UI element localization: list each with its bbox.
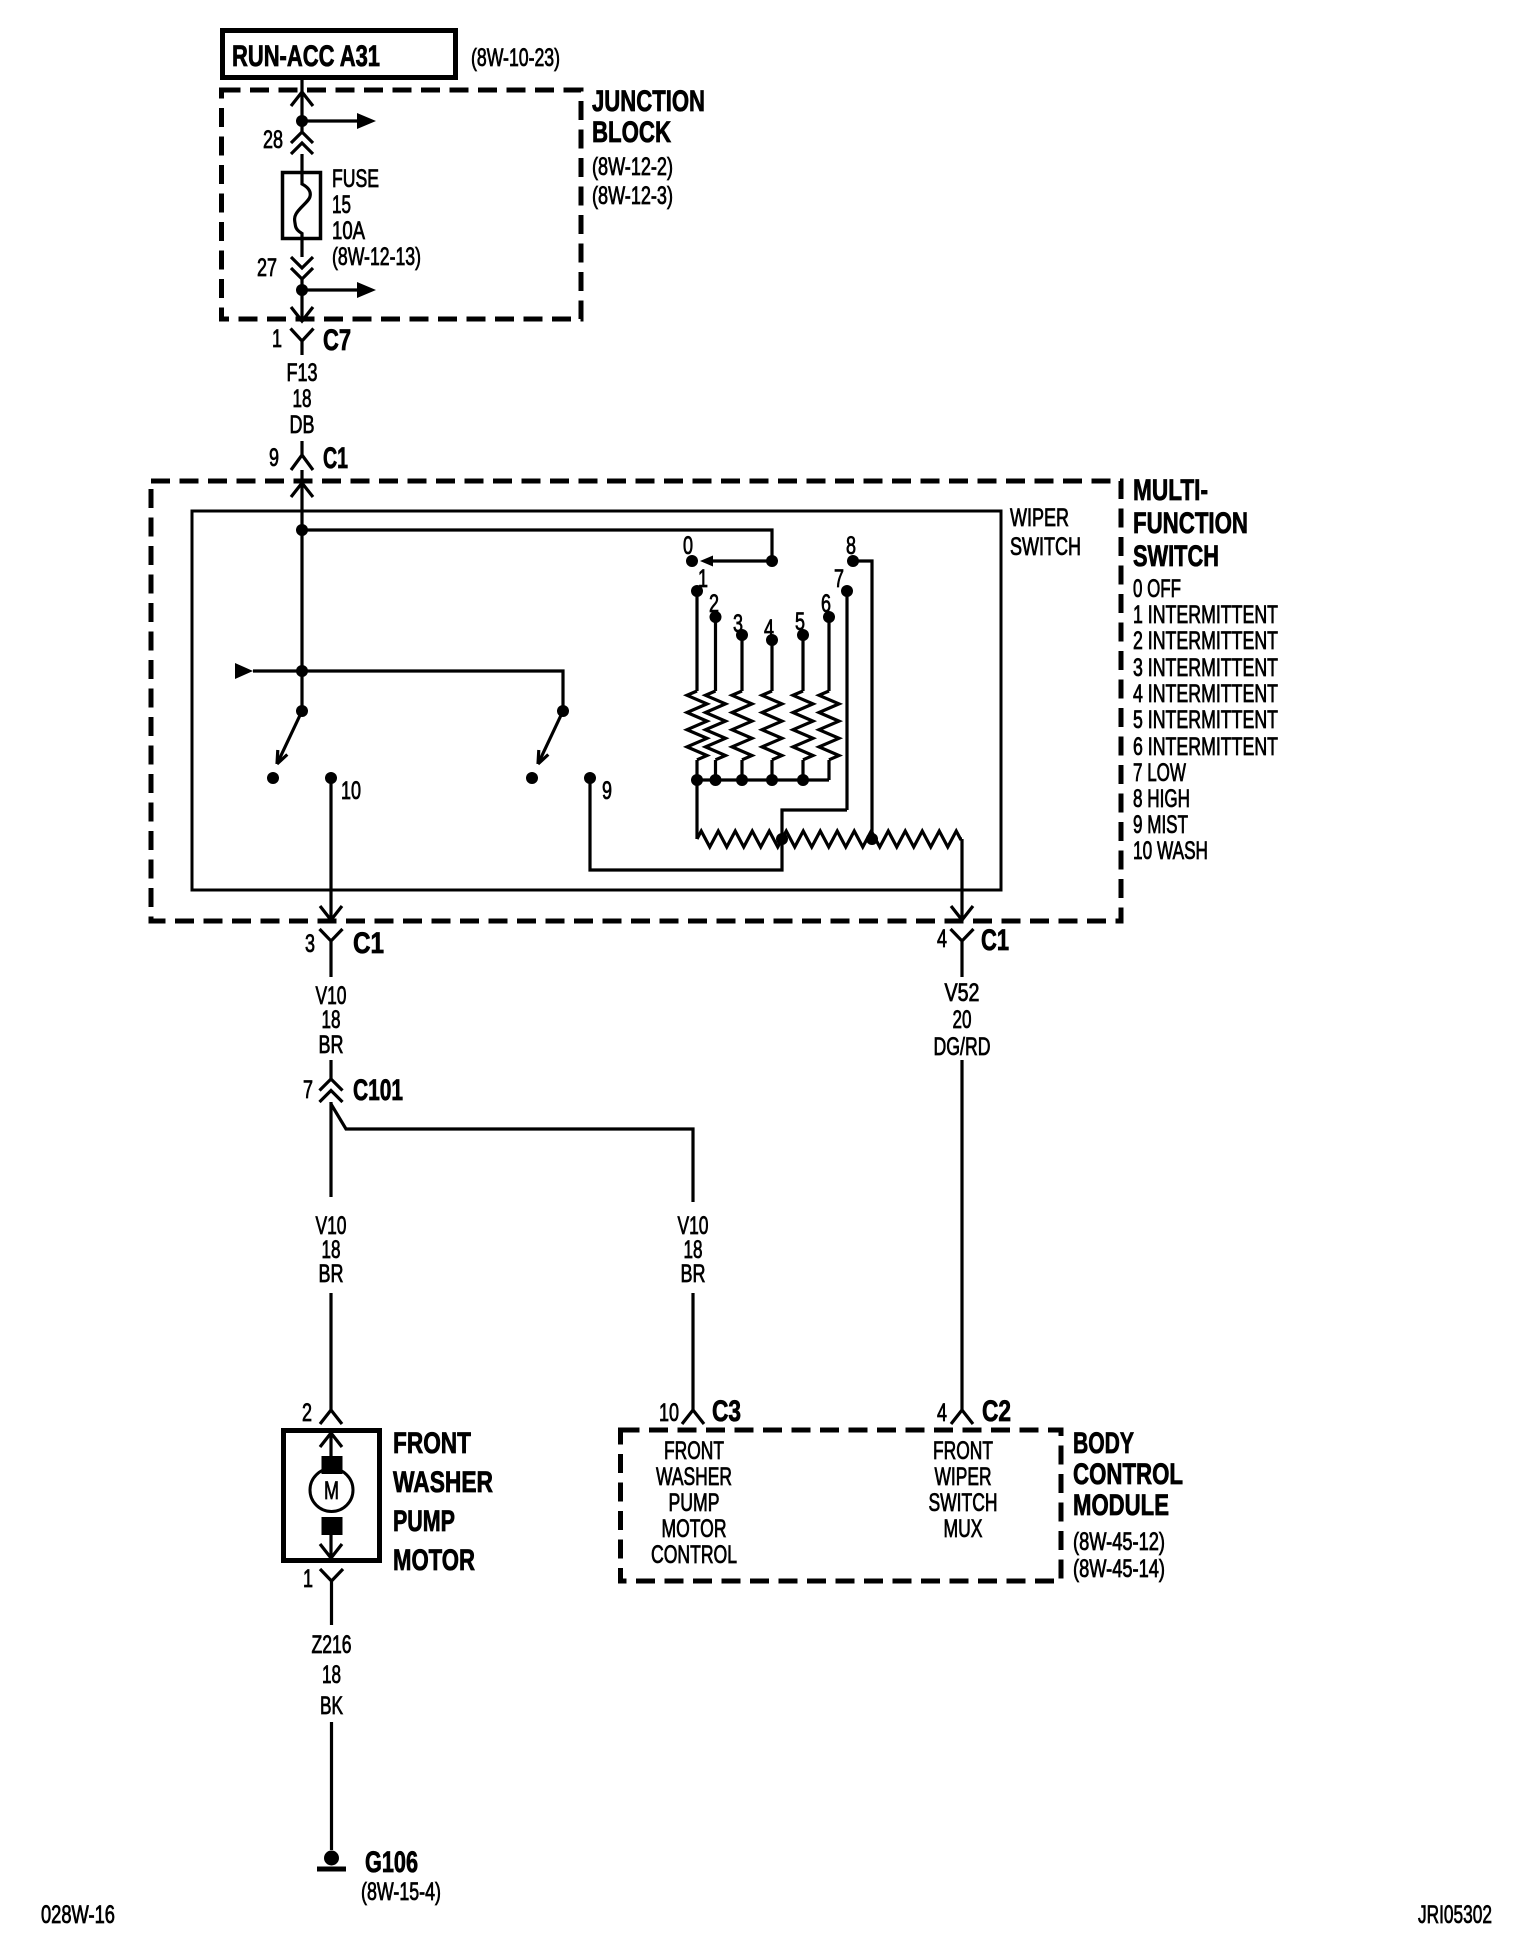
- svg-text:WASHER: WASHER: [393, 1466, 493, 1499]
- node bus dot 5: [797, 774, 809, 786]
- svg-text:SWITCH: SWITCH: [1133, 540, 1219, 573]
- svg-text:C1: C1: [353, 927, 384, 960]
- svg-text:9 MIST: 9 MIST: [1133, 811, 1188, 839]
- motor terminal lower: [322, 1517, 343, 1535]
- arrow down out of switch (mux): [951, 906, 973, 920]
- svg-text:1: 1: [698, 565, 708, 593]
- wire V52 label: [934, 979, 991, 1061]
- node contact 5: [797, 629, 809, 641]
- svg-text:20: 20: [953, 1006, 972, 1034]
- node contact 7: [841, 585, 853, 597]
- svg-text:C2: C2: [982, 1395, 1011, 1428]
- svg-text:028W-16: 028W-16: [41, 1901, 115, 1929]
- arrow up into RUN-ACC A31: [291, 92, 313, 106]
- wire R3 to bus: [740, 760, 743, 780]
- wire F13 label: [287, 359, 318, 439]
- svg-text:MUX: MUX: [944, 1515, 983, 1543]
- wire chevron to lower dot: [300, 279, 303, 322]
- svg-text:6: 6: [821, 590, 831, 618]
- node contact 10: [325, 772, 337, 784]
- svg-text:7 LOW: 7 LOW: [1133, 759, 1186, 787]
- node mist blade pivot: [557, 705, 569, 717]
- wire V52 to C2: [960, 1060, 963, 1410]
- svg-text:MULTI-: MULTI-: [1133, 474, 1208, 507]
- svg-text:WIPER: WIPER: [935, 1463, 992, 1491]
- svg-text:FRONT: FRONT: [933, 1437, 993, 1465]
- svg-text:PUMP: PUMP: [393, 1505, 455, 1538]
- node feed junction top: [296, 524, 308, 536]
- wire resistor bottom bus: [697, 778, 829, 781]
- node wash blade throw contact: [267, 772, 279, 784]
- connector pin 28 double chevron: [291, 132, 313, 154]
- node contact 3: [736, 629, 748, 641]
- node mist blade throw contact: [526, 772, 538, 784]
- wire below C101: [329, 1102, 332, 1197]
- svg-text:28: 28: [263, 126, 283, 154]
- wire switch mux output: [960, 839, 963, 921]
- ground G106 symbol: [317, 1851, 346, 1870]
- svg-text:BK: BK: [320, 1692, 343, 1720]
- node junction dot feed: [296, 115, 308, 127]
- connector C2 male pin 4: [951, 1410, 973, 1424]
- svg-text:(8W-12-2): (8W-12-2): [592, 153, 673, 181]
- svg-text:BODY: BODY: [1073, 1427, 1134, 1460]
- wire from feed arrow to wiper blades: [235, 663, 563, 711]
- resistor R1 intermittent: [687, 691, 707, 760]
- fuse 15 10A: [283, 172, 321, 257]
- svg-text:2: 2: [709, 590, 719, 618]
- resistor R5 intermittent: [793, 691, 813, 760]
- svg-text:2 INTERMITTENT: 2 INTERMITTENT: [1133, 627, 1278, 655]
- svg-text:(8W-12-3): (8W-12-3): [592, 182, 673, 210]
- node chain tap 2 (8 net): [866, 833, 878, 845]
- wire from RUN-ACC A31 down into junction block: [300, 80, 303, 132]
- svg-text:7: 7: [834, 565, 844, 593]
- connector pin 2 male at motor: [320, 1410, 342, 1424]
- node contact 4: [766, 634, 778, 646]
- node junction dot lower: [296, 284, 308, 296]
- wiper switch label: [1010, 504, 1081, 561]
- wire contact 5 to resistor R5: [801, 635, 804, 691]
- node contact 8: [847, 555, 859, 567]
- wire feed bus vertical: [300, 530, 303, 711]
- svg-text:FUNCTION: FUNCTION: [1133, 507, 1248, 540]
- svg-text:DG/RD: DG/RD: [934, 1033, 991, 1061]
- wash switch blade: [277, 711, 302, 764]
- BCM pin function: front washer pump motor control: [651, 1437, 737, 1569]
- wire to ground: [330, 1722, 333, 1850]
- wire V10 label lower right: [678, 1212, 709, 1288]
- svg-text:BR: BR: [681, 1260, 706, 1288]
- connector pin 27 double chevron: [291, 257, 313, 279]
- wire contact 1 to resistor R1: [695, 591, 698, 691]
- svg-text:SWITCH: SWITCH: [929, 1489, 998, 1517]
- connector female pin 1 below motor: [320, 1569, 343, 1625]
- svg-text:FUSE: FUSE: [332, 165, 379, 193]
- front washer pump motor box: [284, 1431, 380, 1561]
- svg-text:1: 1: [303, 1565, 313, 1593]
- svg-text:4: 4: [937, 1399, 947, 1427]
- svg-text:JRI05302: JRI05302: [1418, 1901, 1492, 1929]
- svg-text:5 INTERMITTENT: 5 INTERMITTENT: [1133, 706, 1278, 734]
- resistor R2 intermittent: [706, 691, 726, 760]
- motor terminal upper: [322, 1456, 343, 1474]
- svg-text:Z216: Z216: [312, 1631, 352, 1659]
- wire contact 8 down to chain: [853, 561, 872, 839]
- junction block dashed box: [222, 90, 582, 319]
- svg-text:9: 9: [269, 444, 279, 472]
- wire V10 upper: [329, 955, 332, 977]
- wire contact 7 down: [845, 591, 848, 810]
- svg-text:C101: C101: [353, 1074, 403, 1107]
- svg-text:5: 5: [795, 608, 805, 636]
- svg-text:C3: C3: [712, 1395, 741, 1428]
- svg-text:0: 0: [683, 532, 693, 560]
- arrow up into multi-function switch: [291, 483, 313, 497]
- wire R5 to bus: [801, 760, 804, 780]
- svg-text:JUNCTION: JUNCTION: [592, 85, 705, 118]
- arrow up at motor input: [320, 1433, 342, 1447]
- svg-text:3 INTERMITTENT: 3 INTERMITTENT: [1133, 654, 1278, 682]
- mist switch blade: [538, 711, 563, 764]
- arrow down out of switch (wash): [320, 906, 342, 920]
- resistor delay chain horizontal: [697, 831, 962, 847]
- svg-text:1: 1: [272, 325, 282, 353]
- svg-text:27: 27: [257, 254, 277, 282]
- wire into switch from C1 pin 9: [300, 470, 303, 530]
- wire out of motor: [329, 1535, 332, 1563]
- svg-text:BR: BR: [319, 1260, 344, 1288]
- wire to C3 connector: [691, 1293, 694, 1410]
- svg-text:CONTROL: CONTROL: [651, 1541, 737, 1569]
- wire V52 upper: [960, 955, 963, 977]
- node feed junction at blade bus: [296, 665, 308, 677]
- wire contact 6 to resistor R6: [827, 617, 830, 691]
- wire chevron to fuse: [300, 154, 303, 172]
- resistor R4 intermittent: [762, 691, 782, 760]
- node bus dot 3: [736, 774, 748, 786]
- wire R2 to bus: [714, 760, 717, 780]
- node bus dot 2: [710, 774, 722, 786]
- wire contact 4 to resistor R4: [770, 640, 773, 691]
- node contact 9: [584, 772, 596, 784]
- svg-text:PUMP: PUMP: [669, 1489, 720, 1517]
- node bus dot 1: [691, 774, 703, 786]
- svg-text:(8W-45-12): (8W-45-12): [1073, 1528, 1165, 1556]
- svg-text:FRONT: FRONT: [664, 1437, 724, 1465]
- svg-text:(8W-12-13): (8W-12-13): [332, 243, 421, 271]
- svg-text:BR: BR: [319, 1031, 344, 1059]
- svg-text:SWITCH: SWITCH: [1010, 533, 1081, 561]
- wire contact 3 to resistor R3: [740, 635, 743, 691]
- connector C1 female pin 3: [320, 929, 343, 955]
- wire wash output: [329, 778, 332, 921]
- wire V10 label upper: [316, 982, 347, 1059]
- wire R6 to bus: [827, 760, 830, 780]
- svg-text:V52: V52: [945, 979, 980, 1007]
- svg-text:F13: F13: [287, 359, 318, 387]
- resistor R6 intermittent: [819, 691, 839, 760]
- motor M1 circle: [310, 1469, 353, 1512]
- BCM pin function: front wiper switch mux: [929, 1437, 998, 1543]
- arrow down at motor output: [320, 1544, 342, 1558]
- svg-text:(8W-45-14): (8W-45-14): [1073, 1555, 1165, 1583]
- svg-text:BLOCK: BLOCK: [592, 116, 671, 149]
- junction block label: [592, 85, 705, 210]
- svg-text:8: 8: [846, 532, 856, 560]
- svg-text:MOTOR: MOTOR: [662, 1515, 727, 1543]
- wire to C101: [329, 1060, 332, 1079]
- front washer pump motor label: [393, 1427, 493, 1577]
- wire contact 2 to resistor R2: [714, 617, 717, 691]
- svg-text:CONTROL: CONTROL: [1073, 1458, 1183, 1491]
- node contact 2: [710, 611, 722, 623]
- svg-text:C1: C1: [323, 442, 348, 475]
- svg-text:10: 10: [659, 1399, 679, 1427]
- svg-text:M: M: [324, 1477, 339, 1505]
- svg-text:MODULE: MODULE: [1073, 1489, 1169, 1522]
- wire bus down to delay resistor chain: [695, 780, 698, 839]
- node contact 1: [691, 585, 703, 597]
- svg-text:3: 3: [305, 930, 315, 958]
- svg-text:MOTOR: MOTOR: [393, 1544, 475, 1577]
- switch position legend: [1133, 575, 1278, 865]
- wire branch to front washer pump motor control: [331, 1104, 693, 1202]
- svg-text:G106: G106: [365, 1846, 418, 1879]
- body control module dashed box: [621, 1430, 1062, 1581]
- wire into motor: [329, 1428, 332, 1456]
- svg-text:(8W-15-4): (8W-15-4): [361, 1878, 441, 1906]
- svg-text:2: 2: [302, 1399, 312, 1427]
- body control module label: [1073, 1427, 1183, 1583]
- wire to contact 0 branch: [302, 530, 772, 561]
- svg-text:8 HIGH: 8 HIGH: [1133, 785, 1190, 813]
- connector C7 female: [291, 329, 314, 356]
- svg-text:18: 18: [322, 1661, 341, 1689]
- svg-text:1 INTERMITTENT: 1 INTERMITTENT: [1133, 601, 1278, 629]
- multi-function switch label: [1133, 474, 1248, 573]
- svg-text:9: 9: [602, 777, 612, 805]
- svg-text:18: 18: [322, 1006, 341, 1034]
- svg-text:10: 10: [341, 777, 361, 805]
- svg-text:6 INTERMITTENT: 6 INTERMITTENT: [1133, 733, 1278, 761]
- svg-text:C7: C7: [323, 324, 351, 357]
- svg-text:(8W-10-23): (8W-10-23): [471, 44, 560, 72]
- wire contact 9 to contact 7 net: [590, 778, 847, 870]
- node bus dot 4: [766, 774, 778, 786]
- svg-text:7: 7: [303, 1076, 313, 1104]
- wire arrow to other circuits (bottom): [302, 282, 376, 298]
- wire with arrow pointing at contact 0: [700, 556, 772, 567]
- multi-function switch dashed box: [151, 481, 1121, 921]
- svg-text:4 INTERMITTENT: 4 INTERMITTENT: [1133, 680, 1278, 708]
- node chain tap 1 (7/9 net): [776, 833, 788, 845]
- svg-text:RUN-ACC A31: RUN-ACC A31: [232, 40, 380, 73]
- resistor R3 intermittent: [732, 691, 752, 760]
- wire arrow to other circuits (top): [302, 113, 376, 129]
- wire V10 label lower left: [316, 1212, 347, 1288]
- wire R4 to bus: [770, 760, 773, 780]
- svg-text:C1: C1: [981, 924, 1009, 957]
- svg-text:15: 15: [332, 191, 351, 219]
- svg-text:4: 4: [764, 615, 774, 643]
- wire Z216 label: [312, 1631, 352, 1720]
- svg-text:WIPER: WIPER: [1010, 504, 1069, 532]
- wire R1 to bus: [695, 760, 698, 780]
- wiper switch inner box: [192, 511, 1001, 890]
- svg-text:WASHER: WASHER: [656, 1463, 732, 1491]
- svg-text:FRONT: FRONT: [393, 1427, 471, 1460]
- node contact 6: [823, 611, 835, 623]
- svg-text:4: 4: [937, 925, 947, 953]
- svg-text:DB: DB: [290, 411, 315, 439]
- arrow down out of junction block: [291, 307, 313, 321]
- svg-text:10A: 10A: [332, 217, 365, 245]
- node contact 0: [686, 555, 698, 567]
- svg-text:0 OFF: 0 OFF: [1133, 575, 1181, 603]
- node RUN-ACC A31 feed box: [223, 31, 456, 78]
- connector C3 male pin 10: [682, 1410, 704, 1424]
- svg-text:18: 18: [293, 385, 312, 413]
- svg-text:3: 3: [733, 610, 743, 638]
- connector C1 female pin 4: [951, 929, 974, 955]
- connector C101 double chevron: [320, 1079, 343, 1102]
- fuse label: [332, 165, 421, 271]
- connector C1 male pin 9: [291, 441, 313, 470]
- node branch dot at contact 0 line: [766, 555, 778, 567]
- wire to motor connector: [329, 1293, 332, 1410]
- node wash blade pivot: [296, 705, 308, 717]
- svg-text:10 WASH: 10 WASH: [1133, 837, 1208, 865]
